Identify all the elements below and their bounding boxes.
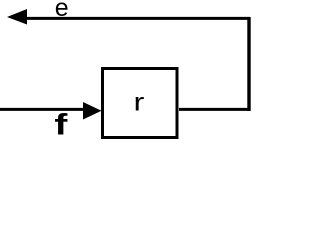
wire feedback bottom connector xyxy=(179,108,251,111)
arrowhead f (points right into box) xyxy=(83,102,102,120)
svg-text:f: f xyxy=(54,109,67,142)
wire f input line xyxy=(0,108,86,111)
block r xyxy=(103,69,178,138)
svg-text:r: r xyxy=(134,89,145,117)
wire feedback right vertical xyxy=(247,17,250,111)
arrowhead e (points left) xyxy=(7,9,27,25)
wire e feedback top line xyxy=(20,17,250,20)
svg-text:e: e xyxy=(55,0,69,22)
